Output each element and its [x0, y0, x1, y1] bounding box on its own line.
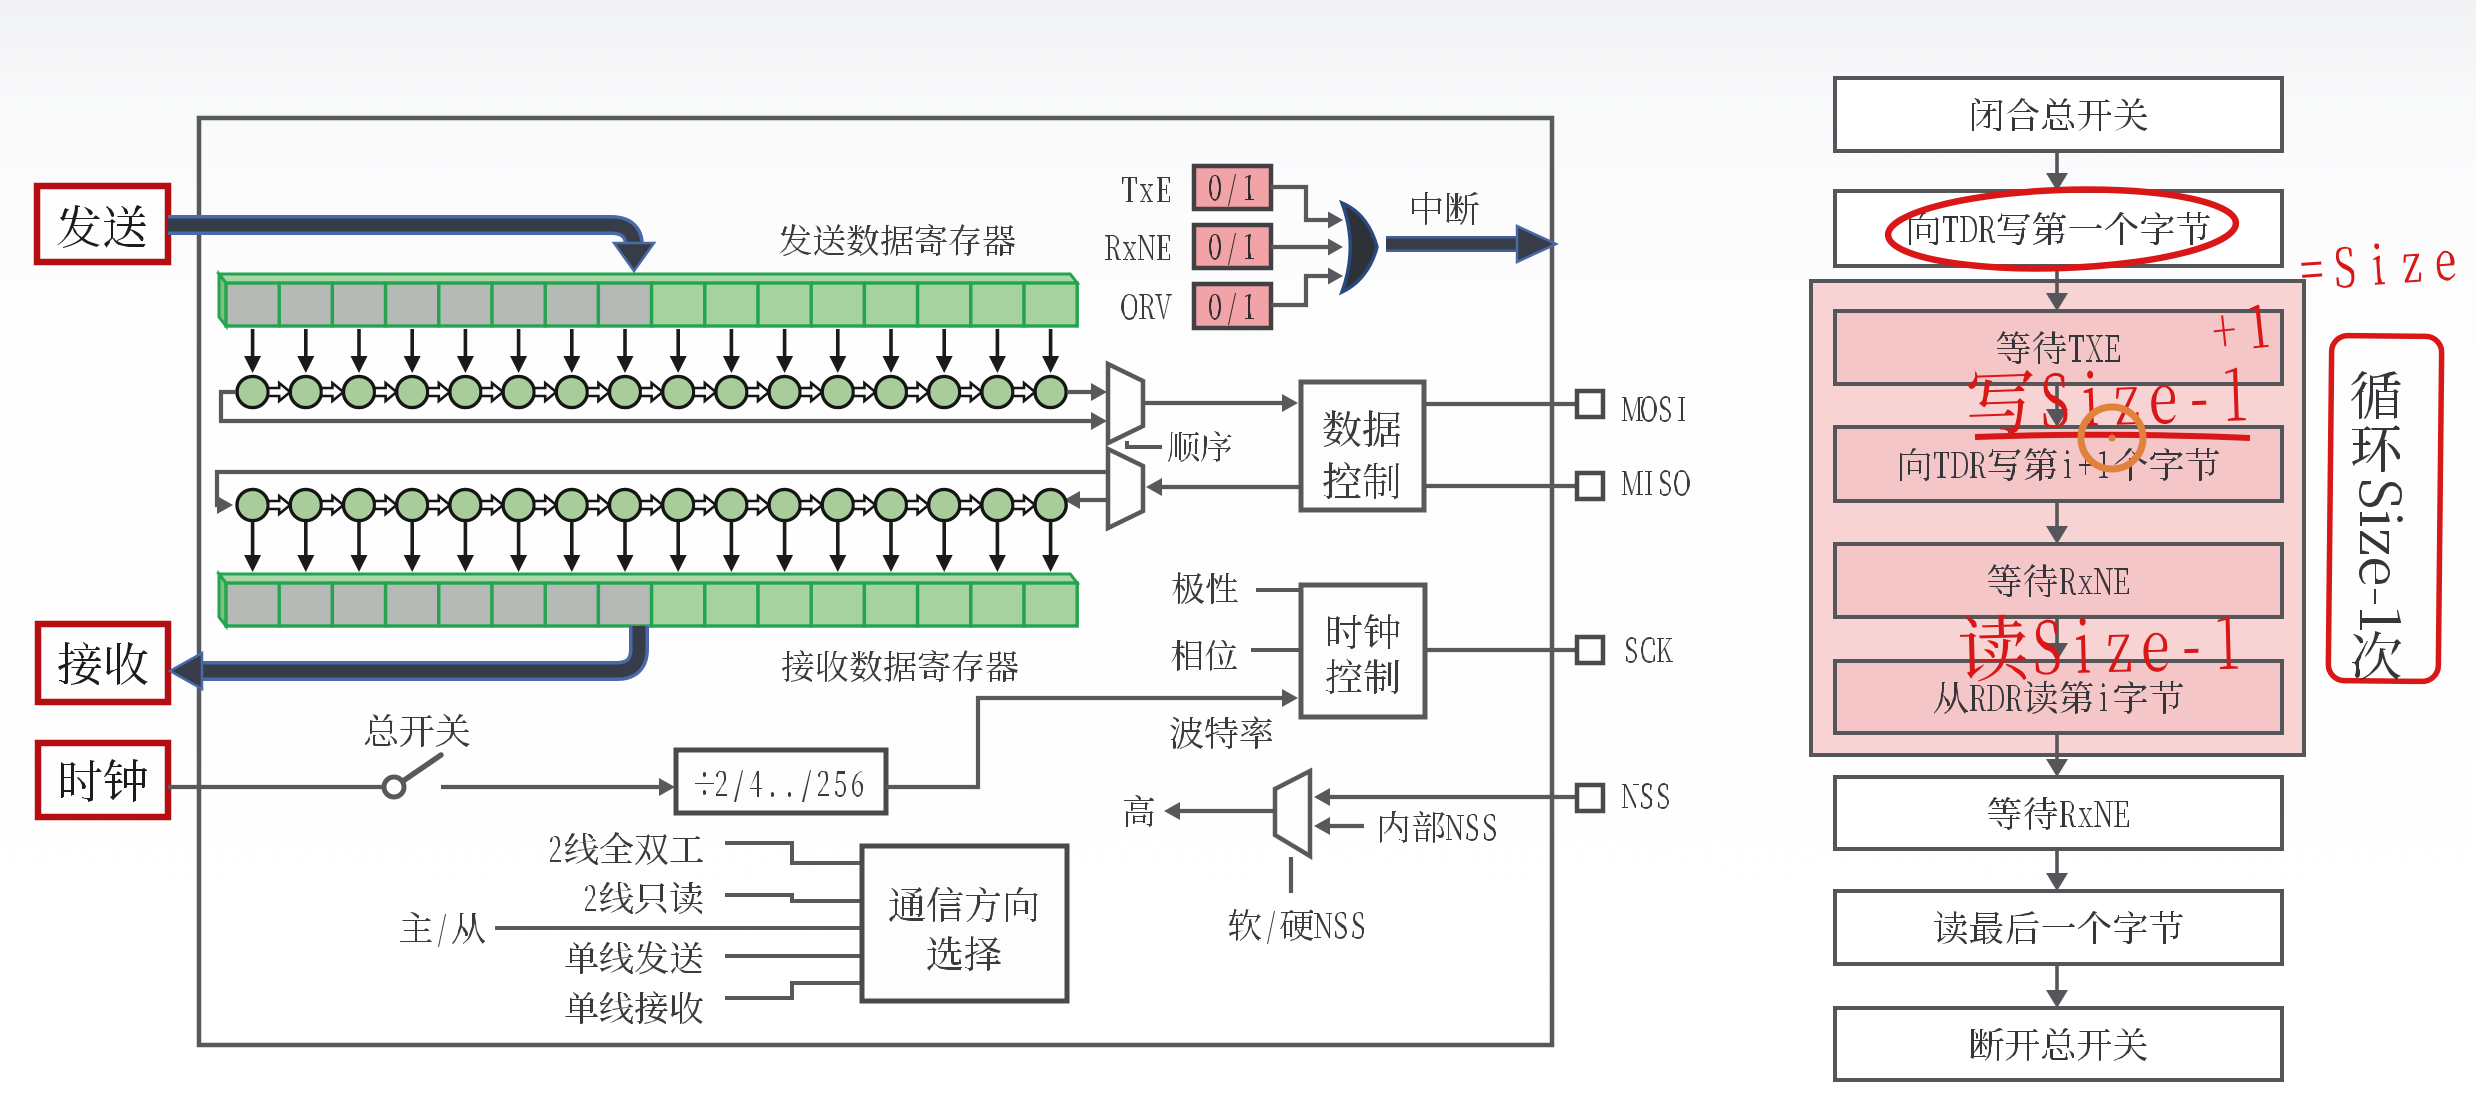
- label 软/硬NSS: [1228, 909, 1364, 944]
- red handwriting 读Size-1: [1959, 609, 2238, 682]
- wire lower mux to rx shift reg last bit: [1071, 498, 1108, 502]
- flow step 6 从RDR读第i字节: [1835, 661, 2282, 733]
- flow arrow 8-9: [2055, 964, 2059, 992]
- label 内部NSS: [1380, 811, 1496, 843]
- NSS mux: [1275, 771, 1310, 856]
- flow arrow 5-6: [2055, 617, 2059, 645]
- label TxE: [1122, 177, 1170, 202]
- wire data control to MOSI pin: [1424, 402, 1577, 406]
- label 总开关: [365, 714, 470, 747]
- flow step 7 等待RxNE: [1835, 777, 2282, 849]
- 16 arrows from TDR into transmit shift register: [244, 329, 1059, 373]
- wire ORV to OR gate: [1271, 276, 1330, 305]
- send label box 发送: [37, 186, 168, 262]
- flow step 2 向TDR写第一个字节: [1835, 191, 2282, 266]
- label SCK: [1626, 637, 1673, 663]
- wire 内部NSS to mux: [1322, 824, 1364, 828]
- wire MISO pin to data control: [1424, 484, 1577, 488]
- label 波特率: [1170, 716, 1272, 749]
- wire 主/从: [495, 926, 862, 930]
- MOSI pin square: [1577, 391, 1603, 417]
- wire tx shift reg to upper mux (top path): [1067, 390, 1101, 394]
- wire NSS pin to NSS mux: [1322, 795, 1577, 799]
- label ORV: [1121, 294, 1172, 320]
- clock label box 时钟: [38, 743, 168, 817]
- OR gate (interrupt): [1342, 203, 1377, 292]
- thick navy interrupt arrow: [1386, 226, 1556, 262]
- clock control block 时钟控制: [1301, 585, 1425, 717]
- loop pink container: [1811, 281, 2304, 755]
- NSS mux select stem: [1289, 857, 1293, 893]
- label stub 顺序: [1127, 441, 1162, 447]
- data control block 数据控制: [1301, 382, 1424, 510]
- wire 2线全双工: [725, 843, 862, 863]
- flow step 8 读最后一个字节: [1835, 891, 2282, 964]
- wire TxE to OR gate: [1271, 187, 1330, 220]
- upper mux (transmit order select): [1108, 364, 1143, 443]
- flow step 5 等待RxNE: [1835, 544, 2282, 617]
- SCK pin square: [1577, 637, 1603, 663]
- flow arrow 3-4: [2055, 384, 2059, 411]
- label MOSI: [1622, 396, 1685, 422]
- wire tx shift reg feedback (bottom path): [221, 392, 1092, 421]
- label 主/从: [400, 912, 485, 947]
- red handwriting 写Size-1 with underline: [1968, 362, 2246, 436]
- red ellipse around 向TDR写第一个字节: [1887, 184, 2238, 274]
- label 单线接收: [565, 991, 703, 1024]
- vertical label 循环Size-1次: [2351, 371, 2403, 680]
- wire NSS mux to 高: [1172, 809, 1275, 813]
- flow arrow 7-8: [2055, 849, 2059, 875]
- orange cursor ring: [2081, 407, 2143, 469]
- label 高: [1124, 795, 1154, 827]
- wire lower mux to rx shift reg first bit: [217, 472, 1108, 505]
- flow step 4 向TDR写第i+1个字节: [1835, 427, 2282, 501]
- flow arrow 2-3: [2055, 266, 2059, 295]
- label 中断: [1412, 192, 1479, 225]
- flow step 3 等待TXE: [1835, 311, 2282, 384]
- label MISO: [1622, 470, 1690, 496]
- flow step 9 断开总开关: [1835, 1008, 2282, 1080]
- wire 时钟 to switch: [168, 785, 384, 789]
- label 接收数据寄存器: [782, 650, 1018, 682]
- label NSS: [1622, 783, 1669, 809]
- transmit shift register (16 bit circles with open arrows): [237, 376, 1066, 407]
- wire 单线接收: [725, 983, 862, 998]
- flow arrow 1-2: [2055, 151, 2059, 175]
- wire SCK out: [1425, 648, 1577, 652]
- wire data control to lower mux (MISO in): [1153, 485, 1301, 489]
- flow step 1 闭合总开关: [1835, 78, 2282, 151]
- red handwriting +1: [2211, 304, 2268, 352]
- SPI peripheral outer border: [199, 118, 1552, 1045]
- thick navy arrow from RDR to 接收: [170, 626, 639, 689]
- label RxNE: [1105, 235, 1170, 260]
- MISO pin square: [1577, 473, 1603, 499]
- wire 单线发送: [725, 954, 862, 958]
- direction select box 通信方向选择: [862, 846, 1067, 1001]
- lower mux (receive order select): [1108, 449, 1143, 528]
- flag box ORV 0/1: [1194, 284, 1271, 328]
- wire 2线只读: [725, 895, 862, 901]
- wire RxNE to OR gate: [1271, 245, 1330, 249]
- baud divider box ÷2/4../256: [676, 750, 886, 813]
- NSS pin square: [1577, 785, 1603, 811]
- red hand-drawn loop bracket: [2328, 335, 2442, 681]
- flow arrow 6-7: [2055, 733, 2059, 761]
- receive shift register (16 bit circles with open arrows): [237, 489, 1066, 520]
- main switch (circle + lever): [384, 755, 441, 797]
- label 相位 with stub: [1251, 648, 1301, 652]
- label 2线只读: [585, 882, 703, 914]
- receive label box 接收: [38, 624, 168, 702]
- thick navy arrow from 发送 into TDR: [168, 225, 654, 271]
- flow arrow 4-5: [2055, 501, 2059, 528]
- label 极性 with stub: [1256, 588, 1301, 592]
- 16 arrows from receive shift register into RDR: [244, 521, 1059, 572]
- label 发送数据寄存器: [779, 224, 1015, 256]
- label 单线发送: [565, 941, 703, 974]
- wire upper mux to data control: [1143, 401, 1291, 405]
- red handwriting =Size: [2300, 238, 2456, 291]
- label 2线全双工: [550, 832, 703, 865]
- flag box TxE 0/1: [1194, 166, 1271, 209]
- flag box RxNE 0/1: [1194, 225, 1271, 268]
- wire divider to clock control (baud rate): [886, 698, 1288, 787]
- transmit data register bar (8 gray + 8 green cells): [219, 274, 1077, 326]
- wire switch to divider: [441, 785, 661, 789]
- receive data register bar (8 gray + 8 green cells): [219, 574, 1077, 626]
